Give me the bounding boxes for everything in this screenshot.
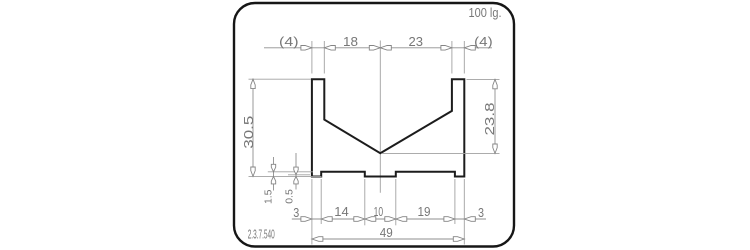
extension line right wall outer (top)	[463, 41, 465, 74]
dimension line 1.5	[273, 157, 275, 191]
dimension line 30.5	[252, 79, 254, 176]
extension line from V apex to right	[382, 152, 500, 154]
svg-text:49: 49	[380, 226, 393, 240]
arrow at right wall outer, pointing left	[464, 46, 475, 51]
arrow 49 left, pointing left	[312, 237, 323, 242]
extension line left wall outer (top)	[311, 41, 313, 74]
svg-text:23.8: 23.8	[483, 103, 497, 136]
arrow at recess right, pointing right	[385, 217, 396, 222]
extension line bottom: right outer	[463, 179, 465, 245]
dimension line 23.8	[494, 79, 496, 153]
extension line bottom: left foot step	[320, 179, 322, 224]
svg-text:3: 3	[478, 206, 484, 220]
extension line top left (for 30.5)	[249, 78, 312, 80]
extension line right wall inner (top)	[451, 41, 453, 74]
arrow 23.8 top, pointing up	[493, 79, 497, 88]
arrow 0.5 lower, pointing up	[294, 176, 298, 184]
svg-text:3: 3	[293, 206, 299, 220]
extension line bottom: center recess left	[364, 179, 366, 225]
arrow at right foot step, pointing right	[444, 217, 455, 222]
arrow at right outer, pointing left	[464, 217, 475, 222]
arrow 0.5 upper, pointing down	[294, 167, 298, 175]
profile outline (die cross-section)	[312, 79, 464, 176]
arrow at left wall inner, pointing left	[324, 46, 335, 51]
svg-text:1.5: 1.5	[264, 189, 275, 204]
drawing sheet border (rounded rectangle)	[234, 3, 514, 247]
svg-text:18: 18	[343, 35, 358, 49]
extension line 0.5 upper level	[288, 174, 310, 176]
arrow at left foot step, pointing left	[321, 217, 332, 222]
arrow 30.5 top, pointing up	[251, 79, 255, 88]
arrow at centerline, pointing right	[369, 46, 380, 51]
arrow 1.5 lower, pointing up	[271, 176, 275, 184]
svg-text:0.5: 0.5	[285, 189, 296, 204]
arrow at left outer, pointing right	[301, 217, 312, 222]
bottom chained dimension line	[292, 218, 486, 220]
extension line bottom: left outer	[311, 179, 313, 245]
arrow at recess left, pointing left	[365, 217, 376, 222]
arrow at recess left, pointing right	[354, 217, 365, 222]
arrow 1.5 upper, pointing down	[271, 164, 275, 172]
centerline	[379, 41, 381, 193]
arrow at recess right, pointing left	[396, 217, 407, 222]
extension line bottom: center recess right	[395, 179, 397, 225]
svg-text:10: 10	[374, 205, 384, 219]
svg-text:14: 14	[334, 205, 349, 219]
extension line top right (for 23.8)	[467, 78, 500, 80]
arrow 49 right, pointing right	[453, 237, 464, 242]
extension line left wall inner (top)	[323, 41, 325, 74]
svg-text:(4): (4)	[474, 35, 493, 49]
arrow at centerline, pointing left	[380, 46, 391, 51]
extension line main bottom level (for 1.5)	[268, 171, 313, 173]
svg-text:19: 19	[418, 205, 431, 219]
svg-text:100 lg.: 100 lg.	[469, 6, 502, 20]
svg-text:23: 23	[409, 35, 424, 49]
extension line bottom: right foot step	[454, 179, 456, 224]
arrow 23.8 bottom, pointing down	[493, 144, 497, 153]
svg-text:2.3.7.540: 2.3.7.540	[248, 228, 275, 242]
extension line bottom left lowest level	[249, 175, 322, 177]
arrow at left wall outer, pointing right	[301, 46, 312, 51]
arrow 30.5 bottom, pointing down	[251, 167, 255, 176]
dimension line 0.5	[295, 153, 297, 190]
overall dimension line 49	[312, 238, 464, 240]
svg-text:30.5: 30.5	[242, 116, 256, 149]
arrow at right wall inner, pointing right	[441, 46, 452, 51]
top dimension line	[264, 47, 492, 49]
svg-text:(4): (4)	[279, 35, 299, 49]
